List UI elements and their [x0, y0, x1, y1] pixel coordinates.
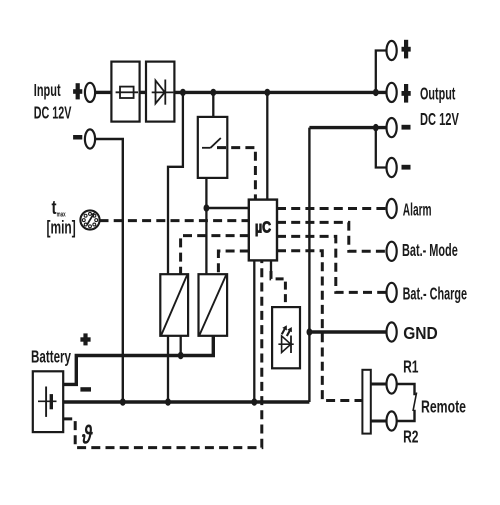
battery symbol	[38, 400, 57, 402]
svg-text:Battery: Battery	[31, 347, 71, 367]
svg-text:Bat.- Charge: Bat.- Charge	[403, 283, 468, 303]
wire battery minus bus	[63, 400, 309, 403]
converter diagonal	[161, 275, 187, 334]
wire switch top stub	[212, 92, 214, 117]
junction dot output minus	[373, 124, 379, 131]
wire R1 right elbow	[397, 384, 415, 395]
DC/DC converter left (charger)	[160, 274, 188, 336]
terminal Bat Mode	[387, 242, 397, 261]
terminal output plus 2	[387, 83, 397, 102]
svg-text:µC: µC	[255, 220, 271, 237]
svg-text:Input: Input	[34, 80, 61, 100]
fuse box F1	[111, 62, 139, 122]
terminal GND	[387, 322, 397, 341]
wire bus to uC top	[266, 92, 268, 199]
sign input plus	[73, 83, 82, 99]
sign output plus 2	[402, 84, 411, 103]
LED symbol	[278, 343, 293, 345]
remote switch blade	[413, 393, 417, 412]
wire left converter bottom to plus bus	[180, 336, 182, 356]
svg-text:ϑ: ϑ	[81, 420, 93, 450]
sign input minus	[73, 135, 82, 140]
microcontroller uC box	[249, 200, 277, 261]
junction dot plus bus	[178, 352, 184, 359]
junction dot minus bus converter	[165, 398, 171, 405]
LED indicator box	[272, 307, 300, 368]
wire uC bottom stub to LED	[270, 260, 272, 271]
junction dot minus bus uC	[251, 398, 257, 405]
dashed uC to Bat Charge	[277, 236, 387, 292]
LED arrows	[282, 327, 286, 334]
svg-text:[min]: [min]	[47, 218, 76, 238]
svg-text:Alarm: Alarm	[403, 200, 432, 220]
remote connector bar	[362, 370, 370, 434]
terminal R2	[387, 411, 397, 430]
wire fuse to diode	[140, 91, 146, 94]
dashed uC to remote bar	[277, 251, 362, 401]
terminal Alarm	[387, 199, 397, 218]
DC/DC converter right (boost)	[199, 274, 228, 336]
battery box	[33, 371, 63, 432]
sign battery plus	[80, 333, 90, 345]
svg-text:DC 12V: DC 12V	[34, 102, 72, 122]
junction dot output plus	[373, 89, 379, 96]
svg-text:Remote: Remote	[421, 397, 466, 417]
terminal R1	[387, 374, 397, 393]
wire R1 from bar	[371, 383, 387, 386]
relay switch box S1	[198, 117, 228, 178]
wire main +12V bus diode to output	[174, 91, 386, 94]
svg-text:Output: Output	[420, 84, 456, 104]
dashed uC to LED elbow	[271, 271, 285, 307]
svg-text:R2: R2	[403, 427, 419, 447]
wire switch bottom to right converter	[205, 178, 207, 274]
wire switch node to uC left	[206, 207, 248, 210]
dashed temperature sensor line	[63, 260, 262, 447]
wire jog from bus to left converter	[168, 92, 183, 274]
sign output minus 2	[402, 165, 411, 170]
converter diagonal	[200, 275, 226, 334]
wire left converter bottom to minus bus	[167, 336, 169, 402]
dashed uC to Bat Mode	[277, 222, 387, 251]
wire input plus to fuse	[96, 91, 111, 94]
terminal input plus	[85, 83, 95, 102]
junction dot bus-jog	[180, 89, 186, 96]
junction dot minus bus input	[120, 398, 126, 405]
svg-text:GND: GND	[403, 323, 438, 343]
dashed timer line to uC	[100, 219, 249, 222]
junction dot bus-switch	[210, 89, 216, 96]
timer knob t_max	[80, 210, 99, 229]
wire input minus down to battery minus bus	[96, 139, 123, 402]
dashed uC to Alarm	[277, 207, 387, 210]
wire output terminal 4 bracket	[376, 128, 387, 168]
terminal input minus	[85, 129, 95, 148]
switch symbol	[202, 147, 211, 149]
terminal output minus 1	[387, 118, 397, 137]
svg-text:Bat.- Mode: Bat.- Mode	[402, 240, 458, 260]
wire R2 right elbow	[397, 410, 415, 421]
junction dot GND	[307, 328, 313, 335]
fuse symbol	[116, 91, 138, 93]
diode box V1	[146, 62, 174, 122]
wire R2 from bar	[371, 420, 387, 423]
sign output minus 1	[402, 125, 411, 130]
svg-text:DC 12V: DC 12V	[420, 109, 459, 129]
wire uC bottom to minus bus	[253, 260, 255, 402]
terminal Bat Charge	[387, 283, 397, 302]
sign output plus 1	[402, 40, 411, 59]
wire output minus	[309, 126, 386, 129]
dashed uC to left converter	[181, 236, 249, 275]
sign battery minus	[80, 387, 91, 391]
wire battery plus bus	[63, 336, 213, 385]
wire vertical minus rail to GND	[308, 128, 310, 402]
svg-text:R1: R1	[403, 357, 419, 377]
wire output terminal 1 bracket	[376, 51, 387, 93]
terminal output minus 2	[387, 158, 397, 177]
wire GND	[309, 330, 386, 333]
junction dot bus-uC	[264, 89, 270, 96]
terminal output plus 1	[387, 41, 397, 60]
junction dot switch-uC	[204, 204, 210, 211]
diode symbol	[152, 91, 174, 93]
dashed switch control to uC top	[217, 148, 255, 200]
dashed uC to right converter	[218, 251, 248, 274]
